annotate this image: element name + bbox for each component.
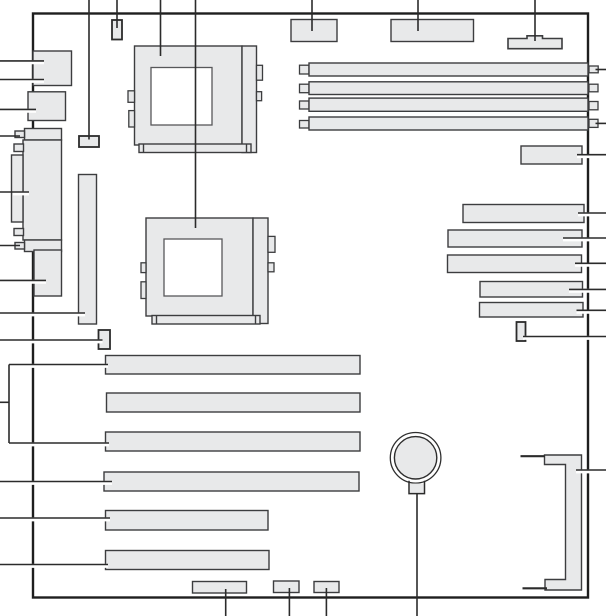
callout line left 4 [0,280,46,284]
IO stack D-sub [12,155,24,222]
right box R2 [463,205,584,223]
callout line top small header [116,0,118,28]
box B top [391,20,474,42]
callout line small connector [0,339,103,343]
heatsink bracket [521,455,582,590]
PCI slot 2 [107,393,361,412]
callout line DIMM 4 [596,122,606,124]
callout bracket group PCI 1 and 3 [0,365,109,445]
callout line R2 [578,212,606,216]
callout line bottom 2 [288,588,290,616]
connector box left 2 [28,92,66,121]
callout line IO middle [13,191,29,195]
right box R4 [448,255,582,273]
connector box left 1 [33,51,72,86]
battery [390,433,441,494]
callout line R6 [577,310,606,314]
callout line bottom 3 [325,588,327,616]
IO stack small square top [14,144,24,152]
PCI slot 3 [106,432,361,451]
callout line PCI slot 4 [0,481,112,485]
callout line battery [416,494,418,616]
callout line R1 [577,154,606,158]
CPU socket 1 [128,46,263,153]
callout line bottom 1 [225,589,227,616]
right box R6 [480,303,584,318]
IO stack bottom bar [25,240,62,252]
callout line CPU socket 1 [160,0,162,56]
CPU socket 2 [141,218,275,324]
callout line left 1a [0,60,44,64]
callout line IO top tab [0,135,20,137]
bottom connector box 3 [314,582,339,593]
callout line R4 [575,263,606,267]
fan connector box top [79,136,99,147]
callout line DIMM 1 [596,69,606,71]
IO stack small square bottom [14,229,24,236]
callout line box A [311,0,313,31]
IO stack top tab [15,131,25,138]
PCI slot 4 [104,472,359,491]
callout line PCI slot 5 [0,517,110,521]
right box R1 [521,146,582,164]
small header box top [112,20,122,40]
vertical riser bar [79,175,97,325]
PCI slot 1 [106,356,361,375]
right box R5 [480,282,583,298]
right box R3 [448,230,582,247]
callout line power connector [534,0,536,41]
right small box R7 [517,322,526,341]
connector box left 4 [34,250,62,296]
callout line left 2 [0,109,36,113]
callout line top fan connector [88,0,90,140]
DIMM slot 3 [300,98,599,111]
callout line IO bottom tab [0,245,20,247]
callout line heatsink bracket [576,469,606,473]
IO stack main body [23,140,62,240]
callout line CPU socket 2 [195,0,197,228]
callout line R5 [569,289,606,293]
IO stack bottom tab [15,243,25,250]
DIMM slot 4 [300,117,599,130]
callout line riser bar [0,312,85,316]
callout line PCI slot 6 [0,564,108,568]
bottom connector box 1 [193,582,247,594]
callout line R7 [523,336,606,340]
DIMM slot 2 [300,82,599,95]
box A top [291,20,337,42]
PCI slot 6 [106,551,270,570]
small connector below riser [99,330,111,349]
callout line left 1b [0,79,44,83]
IO stack top bar [25,129,62,141]
PCI slot 5 [106,511,269,531]
DIMM slot 1 [300,63,599,76]
callout line R3 [563,237,606,241]
power connector [508,36,562,49]
bottom connector box 2 [274,581,300,593]
callout line box B [417,0,419,31]
